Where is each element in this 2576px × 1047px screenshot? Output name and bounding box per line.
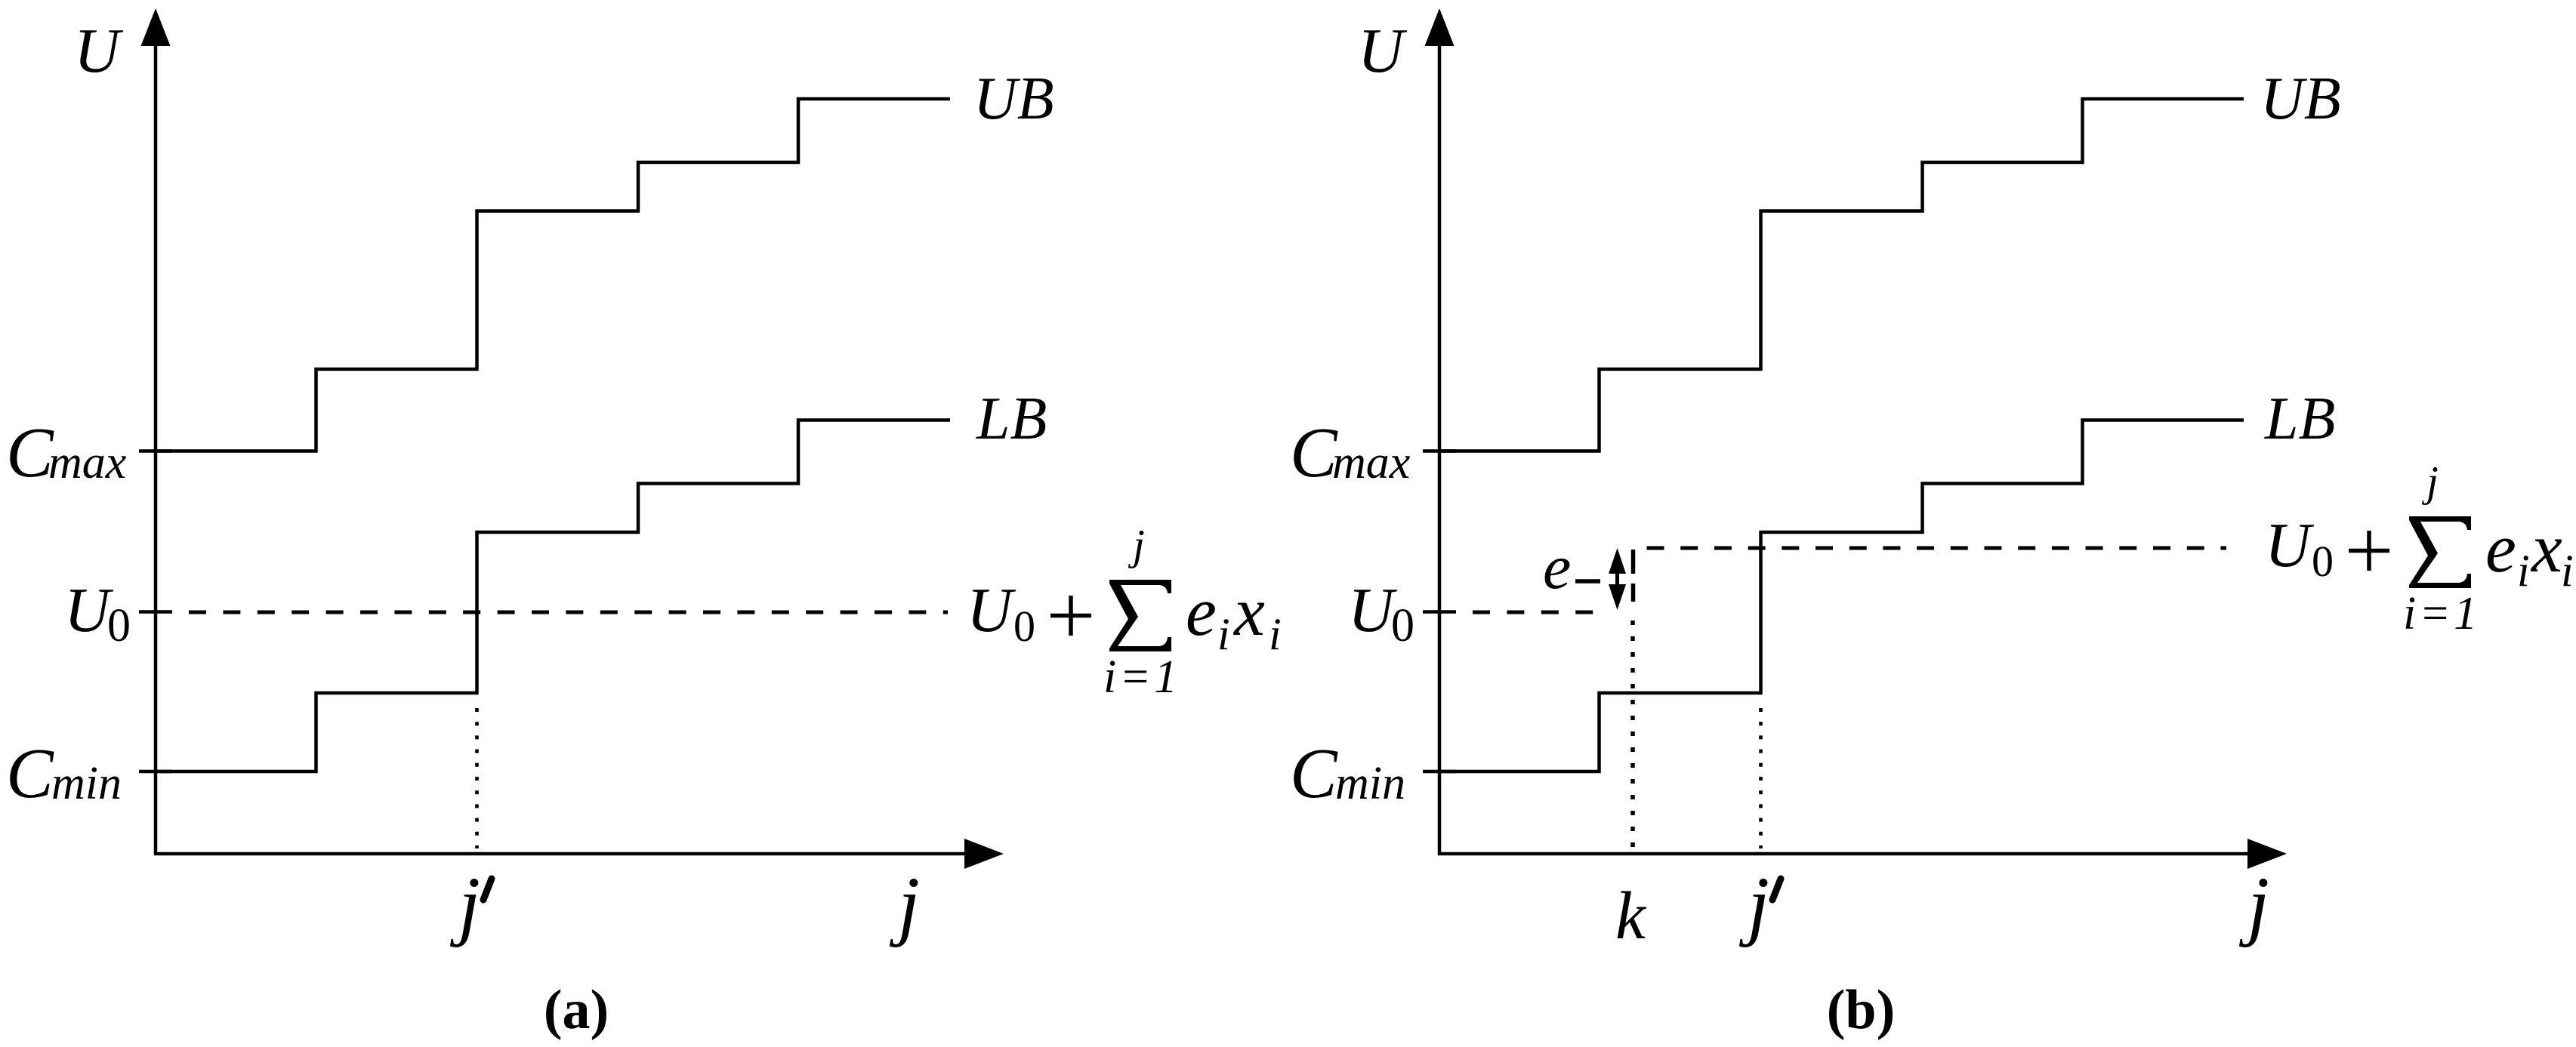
formula U0 + sum e_i x_i (a) (967, 522, 1282, 703)
x-axis arrowhead (a) (964, 839, 1004, 869)
dashed vertical connector (b) (1631, 550, 1636, 602)
svg-text:0: 0 (107, 600, 131, 651)
svg-text:U: U (967, 575, 1017, 645)
svg-text:i: i (1269, 609, 1282, 659)
UB staircase curve (a) (156, 99, 950, 451)
svg-text:0: 0 (2312, 537, 2334, 586)
svg-text:i=1: i=1 (2403, 588, 2480, 639)
svg-text:min: min (1335, 758, 1405, 809)
tick Cmax (b) (1423, 449, 1456, 453)
y-axis arrowhead (a) (141, 8, 171, 46)
svg-text:min: min (51, 758, 122, 809)
tick U0 (b) (1423, 610, 1456, 614)
y-axis (a) (154, 42, 158, 855)
x-axis (b) (1438, 852, 2250, 856)
x-axis arrowhead (b) (2247, 839, 2287, 869)
dashed U0 line (b) (1473, 611, 1595, 614)
svg-text:C: C (1290, 734, 1338, 813)
tick Cmax (a) (139, 449, 172, 453)
svg-text:C: C (1290, 414, 1338, 492)
svg-text:UB: UB (2260, 66, 2341, 132)
svg-text:e: e (2485, 510, 2516, 587)
dotted vertical at k (b) (1630, 621, 1635, 848)
svg-text:C: C (6, 734, 54, 813)
svg-text:e: e (1186, 573, 1217, 650)
svg-text:(b): (b) (1827, 979, 1895, 1041)
svg-text:U: U (1358, 16, 1408, 86)
LB staircase curve (b) (1439, 420, 2244, 772)
dotted vertical at j' (b) (1759, 708, 1763, 848)
svg-text:e: e (1543, 532, 1571, 602)
svg-text:(a): (a) (544, 979, 609, 1041)
svg-text:i: i (2561, 546, 2574, 596)
tick Cmin (a) (139, 770, 172, 774)
svg-text:i: i (1217, 609, 1230, 659)
UB staircase curve (b) (1439, 99, 2244, 451)
tick Cmin (b) (1423, 770, 1456, 774)
svg-text:i=1: i=1 (1103, 651, 1180, 703)
svg-text:LB: LB (976, 386, 1047, 452)
svg-text:UB: UB (973, 66, 1054, 132)
formula U0 + sum e_i x_i (b) (2265, 458, 2574, 639)
svg-text:0: 0 (1391, 600, 1414, 651)
svg-text:max: max (1332, 437, 1411, 488)
y-axis arrowhead (b) (1425, 8, 1455, 46)
x-axis (a) (154, 852, 967, 856)
svg-text:i: i (2517, 546, 2530, 596)
svg-text:U: U (74, 16, 124, 86)
svg-text:x: x (1232, 573, 1265, 650)
LB staircase curve (a) (156, 420, 950, 772)
y-axis (b) (1438, 42, 1442, 855)
svg-text:max: max (48, 437, 127, 488)
svg-text:U: U (2265, 510, 2315, 580)
dotted vertical at j' (a) (475, 708, 479, 848)
svg-text:0: 0 (1013, 602, 1035, 651)
svg-text:C: C (6, 414, 54, 492)
svg-text:LB: LB (2264, 386, 2335, 452)
svg-text:x: x (2530, 510, 2562, 587)
dashed elevated U0+sum line (b) (1647, 547, 2227, 550)
dashed U0 line (a) (189, 611, 948, 614)
double-headed arrow e- (b) (1609, 548, 1626, 610)
tick U0 (a) (139, 610, 172, 614)
svg-text:k: k (1615, 879, 1647, 953)
